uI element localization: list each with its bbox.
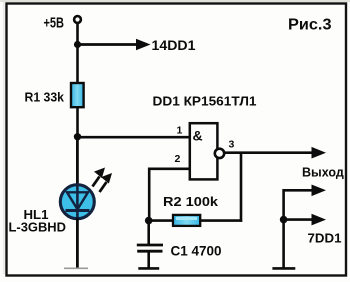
wire R2 left lead to node B [147,219,173,222]
node C junction [280,216,288,224]
feedback wire down from output to R2 [240,152,243,222]
logic gate DD1.1 body [190,123,218,179]
wire +5V terminal down to R1 [76,23,79,84]
svg-text:3: 3 [229,139,235,151]
wire LED down to bottom [76,218,79,268]
node B junction [145,217,153,225]
svg-text:R1 33k: R1 33k [25,90,65,104]
output inverter bubble pin 3 [215,149,224,158]
svg-text:2: 2 [175,153,181,165]
svg-text:1: 1 [177,125,183,137]
svg-text:DD1 КР1561ТЛ1: DD1 КР1561ТЛ1 [153,95,257,109]
svg-text:Рис.3: Рис.3 [288,17,332,34]
svg-text:+5В: +5В [44,15,65,32]
svg-text:С1 4700: С1 4700 [171,243,222,258]
wire pin 3 output [224,151,313,154]
ground stub under LED [64,267,88,269]
LED HL1 [60,185,94,219]
wire R2 right lead [199,219,242,222]
wire pin 2 loop [149,169,189,221]
svg-text:14DD1: 14DD1 [152,37,196,53]
wire R1 to node A [76,107,79,140]
wire node A to gate pin 1 [78,136,190,139]
wire node C to 7DD1 arrow [284,218,313,221]
svg-text:L-3GBHD: L-3GBHD [9,220,67,234]
capacitor C1 [147,221,150,244]
svg-text:7DD1: 7DD1 [308,230,342,245]
LED light emission arrows [93,177,100,187]
resistor R2 [173,215,200,226]
node junction at +5V branch [74,41,81,48]
svg-text:R2 100k: R2 100k [163,194,219,209]
+5V supply terminal [74,16,81,23]
resistor R1 [71,83,84,107]
node A junction [74,133,81,140]
svg-text:Выход: Выход [302,166,344,180]
ground under C1 [138,267,159,270]
wire right branch with arrow [284,190,313,267]
ground under right branch [272,267,295,270]
wire node A down to LED [76,137,79,185]
svg-text:&: & [193,128,203,144]
wire to pin 14 arrow [78,43,138,46]
